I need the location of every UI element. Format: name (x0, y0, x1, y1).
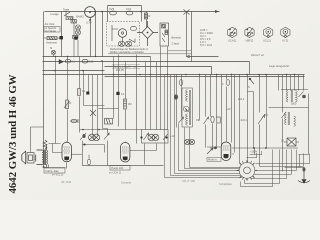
svg-text:2 fach: 2 fach (172, 42, 180, 46)
wire vertical x146 resistor feed (146, 12, 148, 28)
wire x298 (298, 75, 300, 91)
wire x239 (239, 75, 241, 164)
arrowhead end of top bus (215, 10, 219, 13)
tube socket 3 (UCL11) (264, 27, 273, 37)
junction black square x76 (75, 37, 78, 40)
svg-text:Farbpunkt gelb = rot: Farbpunkt gelb = rot (113, 65, 137, 69)
svg-text:Taste: Taste (63, 8, 70, 12)
wire x212.5 lower (212, 124, 214, 148)
tube socket 1 (UCH11) (228, 27, 237, 37)
nest wires above rotary switch (247, 151, 263, 158)
wire x176 blob feed (176, 75, 178, 128)
node junction x99 gang link (98, 129, 100, 131)
band switch tall box (160, 23, 169, 46)
output transformer coils (37, 145, 48, 167)
diode symbol x93 (90, 110, 96, 116)
fuse lamp on bus x53 (51, 50, 55, 56)
wire crossing with arrows at x186 (184, 10, 190, 57)
tube V2 ellipse (121, 143, 130, 163)
values table text block (200, 28, 213, 47)
wire x221.5 (221, 75, 223, 146)
wire x136 (136, 55, 138, 144)
svg-text:C31: C31 (126, 7, 132, 11)
wire V1 right to x82 (71, 153, 82, 155)
wire speaker transformer top (31, 127, 44, 153)
wire x92 (92, 75, 94, 136)
dashed box EM tube detail (107, 22, 140, 47)
svg-text:Schaltplan: Schaltplan (219, 182, 233, 186)
junction at left bottom (43, 166, 45, 168)
wire loop over top x107.5 (108, 6, 142, 22)
wire x205 (205, 75, 207, 148)
svg-text:Lage ausgefuhrt: Lage ausgefuhrt (269, 64, 289, 68)
title text 4642 GW/3 und H 46 GW (rotated) (7, 74, 19, 193)
tube V3 ellipse (221, 142, 231, 161)
svg-text:2x0,1: 2x0,1 (241, 118, 248, 122)
wire x88 (88, 75, 90, 93)
jack / key symbol left mid (70, 119, 78, 123)
wire arrow line y56 (187, 56, 219, 58)
antenna section box with text (44, 27, 60, 33)
output network box with X right (284, 138, 299, 146)
capacitor capsule x68 on bus (65, 59, 71, 63)
electrolytic with arrow x67 (64, 100, 70, 109)
resistor hatched x68 (66, 17, 73, 20)
wire x156 (156, 62, 158, 130)
svg-text:C: C (222, 83, 224, 86)
wire vertical x141 (141, 6, 143, 22)
small box x218.5 (217, 117, 220, 123)
trimmer arrow x206 (204, 117, 209, 124)
wire top bus (45, 11, 220, 13)
svg-text:+2V: +2V (226, 108, 231, 111)
EM tube inner circle (112, 25, 137, 43)
wire x102 (99, 62, 119, 129)
svg-text:4 P+T 100: 4 P+T 100 (182, 179, 195, 183)
tube V1 base blob (64, 157, 69, 161)
svg-text:0,1: 0,1 (82, 90, 86, 93)
wire x181 trimmer feed (181, 75, 183, 118)
trimmer arrow x181 (179, 117, 184, 123)
wire y144.5 left (83, 145, 105, 153)
capacitor capsule x89 bottom (87, 159, 90, 165)
wire y107 right (269, 94, 309, 168)
svg-text:2x0,2: 2x0,2 (238, 98, 245, 101)
chassis wire bottom left (44, 141, 164, 168)
label box under V2 (110, 166, 130, 171)
svg-text:2M: 2M (128, 103, 131, 106)
wire x226 tube V3 feed (226, 75, 228, 142)
tube socket 2 (UBF11) (245, 27, 254, 37)
oscillator gang box (142, 130, 169, 144)
tube socket 4 (UY11) (281, 27, 290, 37)
label box Farbe mid (113, 65, 137, 73)
capacitor capsule x228 on drop (226, 80, 230, 86)
zigzag resistor above transformer (43, 140, 47, 149)
diode triangle on bus (59, 60, 64, 64)
wire bus y74.5 long (43, 74, 305, 76)
wire x253 lower (253, 108, 255, 149)
node junction left of gang 2 (140, 136, 142, 138)
svg-text:5,0 = 10,0: 5,0 = 10,0 (200, 43, 213, 47)
oscillator coil x-circles (185, 139, 195, 144)
svg-text:0,3V: 0,3V (86, 21, 92, 25)
coil cross circles input (75, 25, 80, 30)
wire bus y66 with corner (105, 67, 212, 75)
wire x150 (150, 57, 152, 130)
svg-text:0,1: 0,1 (281, 140, 285, 143)
wire x125 (125, 62, 127, 130)
svg-text:Wellen Lautstarke m.Schalter: Wellen Lautstarke m.Schalter (110, 50, 144, 54)
wire x210.5 (210, 75, 212, 117)
svg-text:aut.Skala: aut.Skala (45, 29, 56, 33)
wire x234 (234, 75, 236, 153)
speaker (22, 151, 26, 164)
wire drops from column (74, 39, 78, 57)
wire x294 (294, 75, 296, 91)
wire x97 (97, 75, 99, 136)
svg-text:Antennen: Antennen (46, 41, 58, 45)
junction square x88 (86, 92, 89, 95)
wire antenna coil leads (44, 37, 60, 39)
blob x304 (302, 95, 306, 99)
capacitor capsule x85 on bus (82, 59, 88, 63)
svg-text:Schacht: Schacht (121, 181, 131, 185)
tube V1 UCL11 ellipse (62, 142, 71, 162)
node junction x254 on +250V line (253, 147, 255, 149)
nested staircase bus bottom left (165, 75, 243, 178)
capacitor C31 capsule top (126, 11, 133, 15)
blob in dashed box (crossed circles) (118, 41, 131, 46)
capacitor capsule x181 on drop (179, 80, 183, 86)
svg-text:C: C (267, 114, 269, 117)
component x79 (resistor) (78, 89, 81, 96)
wire x259 (259, 75, 261, 167)
wire x145 (145, 62, 147, 130)
wire x79 (79, 57, 81, 133)
svg-text:Punkt 100: Punkt 100 (112, 166, 124, 170)
capacitor C29 capsule top (110, 11, 117, 15)
svg-text:0,1: 0,1 (121, 93, 125, 96)
trimmer + blob left of gang cap (80, 133, 86, 140)
svg-text:im VCL11: im VCL11 (52, 173, 64, 177)
wire box around text (108, 51, 191, 54)
wire x216 (216, 75, 218, 147)
trimmer arrow x262 (258, 114, 265, 124)
resistor R vertical at x146 (144, 13, 147, 19)
gang capacitor section 2 (148, 134, 159, 141)
wire osc box drop (156, 144, 158, 151)
rotary switch wafer (237, 160, 258, 181)
svg-text:Punkt: Punkt (210, 147, 217, 150)
wire x199 (199, 75, 201, 121)
wire x107 (107, 129, 109, 134)
svg-text:6AM2: 6AM2 (76, 15, 84, 19)
svg-text:im UCH 11: im UCH 11 (109, 171, 122, 175)
switch with arrow top x66 (64, 12, 70, 17)
svg-text:R: R (70, 102, 72, 105)
switch contact on bus right (249, 78, 254, 84)
junction dots on buses (54, 11, 295, 76)
gang capacitor section 1 (89, 134, 100, 141)
AVC arrow to V3 (207, 148, 213, 154)
wire x83 (84, 71, 105, 106)
wire x247 bracket (248, 75, 254, 163)
svg-text:R: R (149, 14, 151, 18)
svg-text:Werte? u2: Werte? u2 (251, 53, 264, 57)
tube V2 base blob (123, 157, 128, 161)
wire x167 (167, 47, 169, 130)
wire x118 (118, 55, 120, 127)
junction black square (60, 36, 63, 39)
wire vertical x191 (191, 12, 193, 62)
nest wires right of rotary switch (241, 150, 310, 187)
wire gang link y129.5 (80, 129, 142, 131)
mains transformer coils right (281, 90, 308, 103)
junction square x118 (116, 92, 119, 95)
wire x113 (113, 57, 115, 119)
wire x254 drop to switch bracket (254, 149, 256, 155)
wire x266 (266, 75, 268, 149)
wire V2 right y150 (130, 150, 157, 152)
trimmer arrow x301 (299, 92, 304, 98)
choke coils right lower (284, 112, 295, 126)
svg-text:2x0,05: 2x0,05 (116, 68, 124, 72)
rectifier diamond (137, 21, 158, 46)
svg-text:Farbp. blau: Farbp. blau (46, 169, 60, 173)
wire x278 (278, 75, 280, 91)
wire vertical x90 tube lamp drop (90, 18, 92, 57)
trimmer arrow x284 (282, 112, 287, 118)
svg-text:5000: 5000 (291, 103, 297, 106)
label box left of V3 base (207, 158, 221, 162)
svg-text:UBF11: UBF11 (246, 39, 254, 43)
wire y147-148 mid (207, 147, 298, 148)
svg-text:UCH11: UCH11 (228, 39, 237, 43)
resistor hatched x125 (124, 99, 127, 109)
svg-text:C29: C29 (109, 7, 115, 11)
tube V3 base blob (224, 154, 229, 158)
svg-text:Ant Vork: Ant Vork (45, 22, 56, 26)
antenna coil (hatched box) (47, 37, 57, 40)
mains plug / earth arrow bottom right (298, 167, 310, 183)
trimmer capacitor x107 (104, 133, 109, 140)
wire x67 (67, 57, 69, 143)
node junction x83 gang link (82, 129, 84, 131)
wires around V1 (44, 131, 67, 169)
wire bus y70.5 (43, 70, 105, 72)
component column x70-80 (coupling unit) (71, 20, 81, 39)
node junction x266 on +250V line (265, 147, 267, 149)
wire vertical x95 (95, 12, 97, 57)
wire vertical x102 (102, 12, 104, 57)
wire x290 (290, 75, 292, 91)
label box under V1 (44, 168, 65, 173)
wire left vertical (43, 12, 45, 168)
text block above mid bus (Reihenfolge) (110, 47, 149, 54)
wire bus y56.5 (43, 56, 151, 58)
wire x160 (160, 47, 162, 130)
node junction below lamp (89, 19, 91, 21)
svg-text:0,1: 0,1 (72, 61, 76, 64)
svg-text:4642 GW/3 und H 46 GW: 4642 GW/3 und H 46 GW (7, 74, 19, 193)
wire bus y61 (43, 62, 250, 75)
svg-text:AF 1011: AF 1011 (61, 180, 72, 184)
wire x286 (286, 75, 288, 91)
wire x303 (303, 75, 305, 91)
wire x231 (231, 75, 233, 143)
svg-text:Lange: Lange (51, 12, 60, 16)
svg-text:Punkt rt: Punkt rt (208, 159, 217, 162)
dense vertical bus wires to switch bank (56, 47, 304, 172)
blob component x176 (174, 94, 178, 99)
node junction right of gang 2 (165, 136, 167, 138)
svg-text:Bereich: Bereich (172, 36, 182, 40)
blob x215 (214, 146, 217, 149)
dial lamp circle top (85, 7, 96, 18)
speaker transformer box (27, 153, 36, 164)
svg-text:UY11: UY11 (282, 39, 289, 43)
wire x55 (55, 57, 57, 131)
volume pot box bottom left mid (105, 119, 113, 125)
wire vertical x61 (61, 12, 63, 57)
resistor capsule x212.5 (211, 116, 214, 123)
wire bus y76.5 (105, 76, 305, 78)
svg-text:0,05: 0,05 (89, 61, 94, 64)
IF transformer 1 box (182, 88, 192, 127)
wire x282 (282, 75, 284, 172)
svg-text:UCL11: UCL11 (263, 39, 271, 43)
